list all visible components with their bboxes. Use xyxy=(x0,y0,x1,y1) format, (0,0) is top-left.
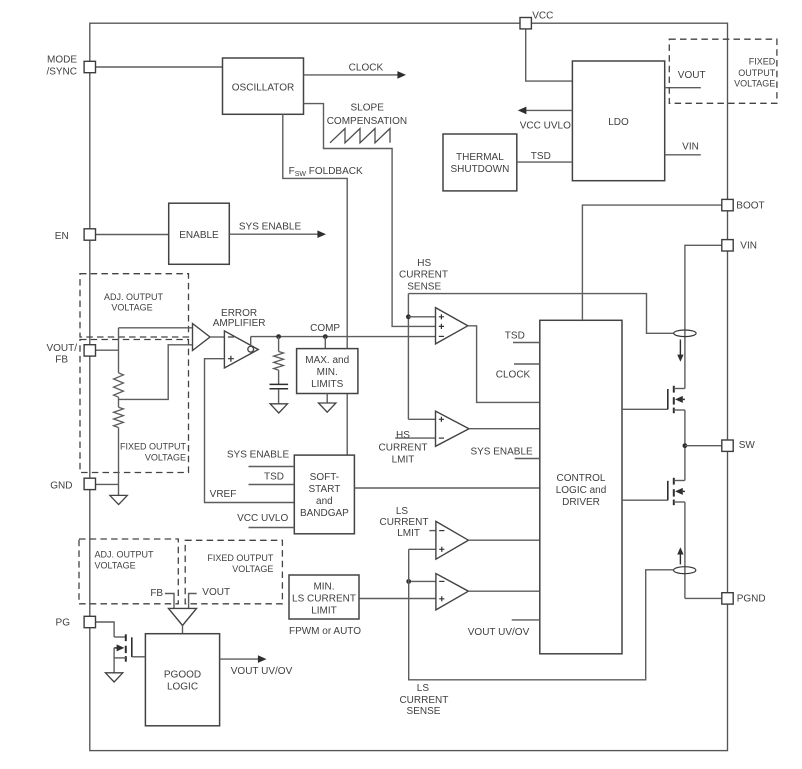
svg-text:CONTROL: CONTROL xyxy=(557,473,606,484)
svg-text:LOGIC: LOGIC xyxy=(167,681,198,692)
wire TSD into soft-start xyxy=(249,484,295,486)
wire mux to pgood logic xyxy=(182,626,184,634)
wire soft-start to control logic xyxy=(354,487,539,489)
svg-text:CURRENT: CURRENT xyxy=(399,695,448,706)
wire SYS ENABLE into control logic xyxy=(515,458,540,460)
ground limits ground xyxy=(319,403,336,412)
pin VOUT/FB xyxy=(84,345,95,356)
wire SYS ENABLE into soft-start xyxy=(249,466,295,468)
svg-text:VREF: VREF xyxy=(210,489,237,500)
block THERMAL SHUTDOWN xyxy=(443,134,517,191)
wire BOOT to control logic xyxy=(582,205,721,320)
block MIN LS CURRENT LIMIT xyxy=(289,575,359,619)
block ENABLE xyxy=(169,203,230,264)
svg-text:COMPENSATION: COMPENSATION xyxy=(327,116,407,127)
transistor PG pulldown FET xyxy=(114,636,126,638)
svg-text:THERMAL: THERMAL xyxy=(456,152,504,163)
box FIXED OUTPUT VOLTAGE (feedback) xyxy=(80,340,189,473)
svg-text:LMIT: LMIT xyxy=(397,528,420,539)
node SW junction dot xyxy=(683,443,688,448)
op-amp feedback buffer xyxy=(193,324,211,351)
svg-text:PGND: PGND xyxy=(737,593,766,604)
sawtooth slope compensation symbol xyxy=(330,129,390,143)
wire LS sense current arrow xyxy=(679,554,681,565)
wire SYS ENABLE output arrow xyxy=(229,233,319,235)
pin BOOT xyxy=(722,199,733,210)
wire COMP line to PWM comparator xyxy=(251,336,436,338)
box ADJ OUTPUT VOLTAGE (feedback) xyxy=(80,274,189,337)
svg-text:LOGIC and: LOGIC and xyxy=(556,485,607,496)
sensor LS current sense element xyxy=(674,567,696,574)
svg-text:OSCILLATOR: OSCILLATOR xyxy=(232,83,294,94)
wire HS source to SW xyxy=(684,410,686,481)
wire VOUT stub into pgood mux xyxy=(189,594,197,609)
wire CLOCK into control logic xyxy=(514,363,540,365)
box ADJ OUTPUT VOLTAGE (pgood) xyxy=(79,539,178,604)
pin SW xyxy=(722,440,733,451)
pin GND xyxy=(84,478,95,489)
wire HS sense comparator inputs xyxy=(408,316,435,318)
svg-text:SYS ENABLE: SYS ENABLE xyxy=(470,447,533,458)
svg-text:VOLTAGE: VOLTAGE xyxy=(734,79,775,89)
svg-text:LIMIT: LIMIT xyxy=(311,605,337,616)
svg-text:SOFT-: SOFT- xyxy=(310,472,339,483)
svg-text:LS: LS xyxy=(417,683,430,694)
wire LS source to PGND xyxy=(684,502,686,598)
pin PGND xyxy=(722,593,733,604)
svg-text:MODE: MODE xyxy=(47,54,77,65)
svg-text:HS: HS xyxy=(396,430,410,441)
svg-text:SENSE: SENSE xyxy=(407,706,441,717)
op-amp error amplifier xyxy=(224,331,258,368)
wire ic boundary xyxy=(90,23,728,750)
svg-text:VCC: VCC xyxy=(532,11,553,22)
wire EN to enable block xyxy=(95,234,169,236)
block LDO xyxy=(572,61,664,181)
wire PWM comparator output to control logic xyxy=(468,326,540,403)
svg-text:FPWM or AUTO: FPWM or AUTO xyxy=(289,626,361,637)
svg-text:CLOCK: CLOCK xyxy=(349,63,384,74)
svg-text:VOLTAGE: VOLTAGE xyxy=(95,561,136,571)
box FIXED OUTPUT VOLTAGE (LDO) xyxy=(669,39,777,103)
svg-text:MIN.: MIN. xyxy=(317,367,338,378)
svg-text:SHUTDOWN: SHUTDOWN xyxy=(450,164,509,175)
svg-text:PG: PG xyxy=(56,617,71,628)
wire TSD into control logic xyxy=(513,342,540,344)
svg-text:ADJ. OUTPUT: ADJ. OUTPUT xyxy=(95,549,155,559)
svg-text:VOUT UV/OV: VOUT UV/OV xyxy=(231,666,293,677)
svg-text:HS: HS xyxy=(417,258,431,269)
op-amp HS sense PWM comparator xyxy=(436,308,468,344)
box FIXED OUTPUT VOLTAGE (pgood) xyxy=(185,540,282,604)
transistor LS power FET xyxy=(622,499,668,501)
svg-text:GND: GND xyxy=(50,480,72,491)
svg-text:ENABLE: ENABLE xyxy=(179,230,219,241)
svg-text:/SYNC: /SYNC xyxy=(46,66,77,77)
svg-text:BOOT: BOOT xyxy=(736,201,764,212)
svg-text:VOLTAGE: VOLTAGE xyxy=(111,302,152,312)
svg-text:VCC UVLO: VCC UVLO xyxy=(520,121,571,132)
wire MODE/SYNC to oscillator xyxy=(95,66,222,68)
svg-text:MAX. and: MAX. and xyxy=(305,355,349,366)
block CONTROL LOGIC and DRIVER xyxy=(540,320,622,654)
svg-text:ADJ. OUTPUT: ADJ. OUTPUT xyxy=(104,292,164,302)
svg-text:AMPLIFIER: AMPLIFIER xyxy=(213,318,266,329)
wire FB stub into pgood mux xyxy=(165,594,174,609)
node HS sense junction dot xyxy=(406,314,411,319)
svg-text:TSD: TSD xyxy=(264,472,284,483)
svg-text:SYS ENABLE: SYS ENABLE xyxy=(227,449,290,460)
svg-text:CURRENT: CURRENT xyxy=(379,442,428,453)
wire HS sense current arrow xyxy=(679,340,681,357)
svg-text:DRIVER: DRIVER xyxy=(562,497,600,508)
wire VCC UVLO output arrow xyxy=(524,109,572,111)
resistor compensation xyxy=(278,337,280,352)
transistor HS power FET xyxy=(622,408,668,410)
svg-text:and: and xyxy=(316,496,333,507)
wire TSD thermal to LDO xyxy=(517,161,573,163)
svg-text:VIN: VIN xyxy=(740,240,757,251)
wire VCC UVLO into soft-start xyxy=(249,527,295,529)
wire slope compensation xyxy=(304,104,436,327)
node COMP junction dots xyxy=(276,334,281,339)
ground divider ground xyxy=(110,495,127,504)
svg-text:LIMITS: LIMITS xyxy=(311,379,344,390)
wire limits to ground xyxy=(326,394,328,404)
block OSCILLATOR xyxy=(223,58,304,114)
wire SW pin xyxy=(685,445,722,447)
wire CLOCK output xyxy=(304,74,399,76)
svg-text:SLOPE: SLOPE xyxy=(351,103,385,114)
svg-text:CURRENT: CURRENT xyxy=(399,270,448,281)
pin PG xyxy=(84,616,95,627)
svg-text:VCC UVLO: VCC UVLO xyxy=(237,513,288,524)
svg-text:BANDGAP: BANDGAP xyxy=(300,508,349,519)
wire VREF to error amp xyxy=(205,359,295,503)
wire PG pin to pulldown FET xyxy=(95,622,114,637)
svg-text:CURRENT: CURRENT xyxy=(380,517,429,528)
wire VIN pin to power rail xyxy=(685,245,722,388)
svg-text:FB: FB xyxy=(55,354,68,365)
block MAX and MIN LIMITS xyxy=(324,337,326,349)
svg-text:SENSE: SENSE xyxy=(407,282,441,293)
svg-text:PGOOD: PGOOD xyxy=(164,669,201,680)
svg-text:SYS ENABLE: SYS ENABLE xyxy=(239,222,302,233)
svg-text:VIN: VIN xyxy=(682,142,699,153)
op-amp LS current limit comparator xyxy=(429,530,436,532)
svg-text:TSD: TSD xyxy=(531,151,551,162)
svg-text:VOLTAGE: VOLTAGE xyxy=(232,564,273,574)
wire VOUT UV/OV pgood output arrow xyxy=(220,658,260,660)
svg-text:LS: LS xyxy=(396,506,409,517)
svg-text:VOUT: VOUT xyxy=(678,70,706,81)
svg-text:SW: SW xyxy=(739,440,756,451)
wire FSW FOLDBACK xyxy=(283,114,347,455)
svg-text:FIXED: FIXED xyxy=(749,57,776,67)
svg-text:MIN.: MIN. xyxy=(313,581,334,592)
capacitor compensation xyxy=(278,370,280,384)
wire LS current sense feedback xyxy=(409,549,674,680)
op-amp pgood input mux xyxy=(169,608,197,625)
ground PG FET ground xyxy=(105,673,122,682)
svg-text:EN: EN xyxy=(55,231,69,242)
block PGOOD LOGIC xyxy=(145,634,219,726)
svg-text:LMIT: LMIT xyxy=(392,455,415,466)
svg-text:LS CURRENT: LS CURRENT xyxy=(292,593,356,604)
svg-text:VOUT UV/OV: VOUT UV/OV xyxy=(468,627,530,638)
wire HS current sense feedback xyxy=(408,294,673,334)
wire LDO VOUT stub xyxy=(665,87,701,89)
pin VIN xyxy=(722,240,733,251)
svg-text:VOLTAGE: VOLTAGE xyxy=(145,453,186,463)
svg-text:COMP: COMP xyxy=(310,323,340,334)
svg-text:TSD: TSD xyxy=(505,330,525,341)
wire VCC to LDO xyxy=(526,29,573,81)
wire LDO VIN stub xyxy=(665,154,701,156)
svg-text:VOUT: VOUT xyxy=(202,587,230,598)
op-amp zero-cross comparator xyxy=(409,580,436,582)
svg-text:FIXED OUTPUT: FIXED OUTPUT xyxy=(120,442,187,452)
wire HS limit output to control logic xyxy=(469,428,540,430)
wire VOUT/FB pin net xyxy=(95,349,118,351)
wire error amp output bubble xyxy=(248,346,254,352)
svg-text:FIXED OUTPUT: FIXED OUTPUT xyxy=(207,553,274,563)
svg-text:VOUT/: VOUT/ xyxy=(46,343,77,354)
sensor HS current sense element xyxy=(674,330,696,337)
wire zero-cross output to control logic xyxy=(468,590,539,592)
resistor feedback divider upper xyxy=(114,373,124,397)
resistor feedback divider lower xyxy=(114,407,124,427)
wire divider tap xyxy=(118,397,120,407)
svg-text:LDO: LDO xyxy=(608,117,629,128)
svg-text:START: START xyxy=(308,484,340,495)
node LS sense junction dot xyxy=(406,579,411,584)
wire VOUT UV/OV into control logic xyxy=(512,619,540,621)
wire divider to GND pin xyxy=(118,428,120,485)
op-amp HS current limit comparator xyxy=(408,418,435,420)
svg-text:OUTPUT: OUTPUT xyxy=(738,68,776,78)
wire FB to buffer xyxy=(119,327,193,329)
wire LS limit output to control logic xyxy=(468,539,539,541)
pin EN xyxy=(84,229,95,240)
ground compensation xyxy=(270,404,287,413)
block SOFT-START and BANDGAP xyxy=(294,455,354,534)
pin MODE/SYNC xyxy=(84,61,95,72)
svg-text:CLOCK: CLOCK xyxy=(496,370,531,381)
svg-text:FB: FB xyxy=(150,588,163,599)
pin VCC xyxy=(520,18,531,29)
